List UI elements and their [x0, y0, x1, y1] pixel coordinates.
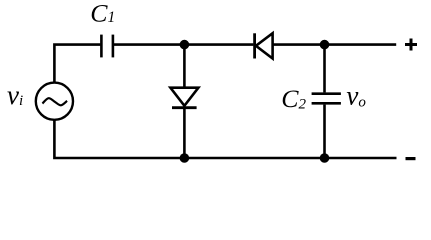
svg-text:C1: C1: [90, 0, 115, 28]
diode D1 cathode bar: [172, 106, 197, 109]
sine wave: [42, 98, 67, 105]
middle branch wire upper: [183, 45, 186, 87]
diode D2 cathode bar: [253, 33, 256, 58]
diode D1 triangle: [170, 88, 198, 106]
diode D2 triangle: [256, 33, 273, 58]
minus terminal: [406, 157, 416, 160]
svg-text:C2: C2: [281, 84, 306, 113]
junction dot bottom-right: [320, 153, 330, 163]
junction dot top-middle: [180, 40, 190, 50]
junction dot top-right: [320, 40, 330, 50]
capacitor C1: [101, 35, 113, 58]
AC source vi: [36, 83, 73, 120]
right branch wire lower: [323, 105, 326, 158]
junction dot bottom-middle: [180, 153, 190, 163]
right branch wire upper: [323, 45, 326, 93]
svg-text:vi: vi: [7, 80, 23, 110]
capacitor C2: [312, 94, 341, 104]
plus terminal: [405, 39, 417, 51]
wire source to bottom: [54, 120, 396, 158]
wire D2 to right end: [273, 43, 397, 46]
svg-text:vo: vo: [346, 81, 366, 111]
wire top-left from source to C1: [54, 45, 100, 84]
middle branch wire lower: [183, 108, 186, 158]
wire C1 to diode D2: [114, 43, 253, 46]
